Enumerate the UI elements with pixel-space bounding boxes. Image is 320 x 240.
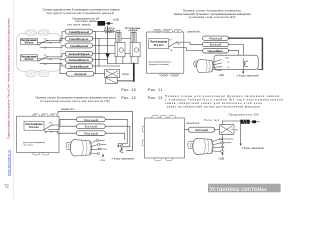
svg-text:с помощью Габаритного канала №: с помощью Габаритного канала №1 (при про… bbox=[165, 98, 283, 102]
fuse F1 (black block) bbox=[98, 21, 106, 26]
pill wire Зелёный (fig13) bbox=[189, 127, 215, 132]
pill wire Чёрный-2 (fig12) bbox=[76, 131, 105, 136]
svg-text:30-й конт: 30-й конт bbox=[154, 44, 165, 47]
svg-text:Подача команд и запуск устройс: Подача команд и запуск устройств · Рис-т… bbox=[6, 18, 10, 139]
pill wire Белый (fig12) bbox=[76, 124, 105, 129]
wire fuse to +12V plug bbox=[250, 121, 253, 123]
car wheels top-left bbox=[26, 30, 36, 35]
U3 side tabs bbox=[142, 126, 144, 132]
svg-text:Рис. 13: Рис. 13 bbox=[148, 96, 163, 100]
arrow to ignition block bbox=[242, 70, 244, 72]
svg-text:(для программирования: (для программирования bbox=[149, 61, 171, 63]
top loop wire bbox=[58, 112, 133, 151]
svg-text:Белый: Белый bbox=[210, 43, 221, 47]
svg-text:30: 30 bbox=[227, 67, 229, 69]
+12V terminal plug bbox=[252, 120, 256, 123]
feeder wire (thick) bbox=[133, 64, 135, 81]
wires K5 to pills bbox=[52, 119, 76, 125]
svg-text:Установка системы: Установка системы bbox=[210, 186, 267, 193]
ignition lock housing bbox=[200, 60, 213, 73]
svg-text:(на горле замка): (на горле замка) bbox=[68, 23, 91, 27]
wire bus to actuator M1 bbox=[96, 31, 116, 33]
wires from lock pins to harness bbox=[222, 138, 233, 140]
svg-text:+12В: +12В bbox=[112, 18, 119, 22]
U2 bottom connector tabs bbox=[33, 153, 40, 155]
svg-text:Рис. 11: Рис. 11 bbox=[148, 88, 163, 92]
relay K1 box (opening) bbox=[20, 38, 37, 44]
ignition pins fan bbox=[213, 60, 221, 63]
svg-text:+12В: +12В bbox=[100, 160, 106, 162]
svg-text:при двухступенчатом открывании: при двухступенчатом открывании дверей bbox=[47, 11, 114, 15]
relay K3 coil bbox=[106, 78, 118, 84]
svg-text:15: 15 bbox=[227, 62, 229, 64]
svg-text:Рис. 12: Рис. 12 bbox=[121, 96, 136, 100]
pill wire Зелёный bbox=[66, 71, 94, 76]
actuator M1 (driver door lock) bbox=[117, 30, 120, 32]
svg-text:30-й конт: 30-й конт bbox=[25, 42, 35, 45]
wire bus row 6 bbox=[99, 65, 120, 67]
svg-text:замка габаритный канал для вкл: замка габаритный канал для включения это… bbox=[165, 101, 262, 105]
alarm unit U1 box bbox=[146, 32, 183, 73]
svg-text:30: 30 bbox=[170, 50, 172, 52]
svg-text:Реле №4: Реле №4 bbox=[204, 119, 219, 122]
svg-text:системы): системы) bbox=[23, 145, 33, 147]
svg-text:+12В: +12В bbox=[218, 158, 224, 161]
svg-text:30-й конт: 30-й конт bbox=[29, 126, 40, 129]
svg-text:Синий/Красный: Синий/Красный bbox=[69, 30, 89, 34]
svg-text:87: 87 bbox=[44, 55, 46, 57]
svg-text:Зелёный/Белый: Зелёный/Белый bbox=[70, 64, 89, 68]
svg-text:двери: двери bbox=[105, 32, 115, 34]
svg-text:Зелёный: Зелёный bbox=[195, 128, 208, 132]
svg-text:+12В: +12В bbox=[218, 75, 224, 77]
car wheels bottom-right bbox=[39, 71, 49, 77]
pill wire Синий/Коричневый bbox=[65, 36, 93, 41]
actuator M1 wires bbox=[115, 57, 117, 64]
svg-text:Реле блокировки: Реле блокировки bbox=[150, 41, 168, 44]
wire pill2 down bbox=[229, 44, 244, 55]
arrow into ignition harness bbox=[102, 154, 104, 156]
alarm unit U3 box bbox=[145, 118, 185, 158]
pill wire Синий/Красный bbox=[65, 29, 93, 34]
car body (faint) bbox=[17, 34, 61, 72]
svg-text:на плюсе замка: на плюсе замка bbox=[76, 20, 97, 23]
actuator M2 wires bbox=[130, 57, 132, 64]
svg-text:Зелёный/Чёрный: Зелёный/Чёрный bbox=[69, 52, 90, 56]
relay K5 box bbox=[24, 121, 44, 130]
svg-text:30: 30 bbox=[44, 48, 46, 50]
wire green pill to relay K3 bbox=[96, 73, 105, 75]
svg-text:разъём №1: разъём №1 bbox=[61, 108, 75, 111]
wire pill1 to ignition bbox=[105, 119, 127, 143]
svg-text:30-й конт: 30-й конт bbox=[25, 58, 35, 61]
U1 bottom connector tabs bbox=[160, 73, 168, 76]
svg-text:Чёрный: Чёрный bbox=[209, 37, 222, 41]
relay K6 box with contacts bbox=[219, 124, 234, 134]
relay K2 box (closing) bbox=[20, 55, 37, 61]
svg-text:(переключательная часть как ко: (переключательная часть как контактов НР… bbox=[40, 99, 110, 103]
wire pill to relay bbox=[215, 129, 220, 131]
car wheels top-right bbox=[39, 30, 49, 35]
wire bus row 3 bbox=[96, 45, 124, 47]
svg-text:87: 87 bbox=[169, 40, 171, 42]
ignition contact hooks (fig12) bbox=[120, 145, 123, 147]
svg-text:заводская настройка): заводская настройка) bbox=[149, 63, 169, 66]
svg-text:30: 30 bbox=[45, 132, 47, 134]
car wheels bottom-left bbox=[26, 71, 36, 77]
svg-text:Синий/Коричн.: Синий/Коричн. bbox=[69, 37, 89, 41]
pill wire Чёрный (fig12) bbox=[76, 117, 105, 122]
svg-text:www.autoalarm.ru: www.autoalarm.ru bbox=[6, 150, 10, 176]
wire pill3 down bbox=[229, 51, 239, 56]
svg-text:30: 30 bbox=[44, 64, 46, 66]
svg-text:(для программируемой: (для программируемой bbox=[23, 141, 46, 144]
ignition contact hooks bbox=[244, 61, 247, 64]
ignition lock S3 (fig13) bbox=[188, 138, 213, 154]
wire down from fuse bbox=[107, 26, 109, 64]
svg-text:канал на габаритный сигнал для: канал на габаритный сигнал для выполнени… bbox=[167, 104, 260, 108]
svg-text:Чёрный/Бел.: Чёрный/Бел. bbox=[208, 49, 224, 53]
relay K4 box (blocking) bbox=[149, 39, 169, 49]
actuator M2 (other locks) bbox=[132, 30, 135, 32]
svg-text:к блоку зажигания: к блоку зажигания bbox=[242, 147, 265, 150]
ground-style arrow on wire bbox=[105, 53, 110, 58]
wire fuse to +12V bbox=[105, 22, 113, 24]
wire K4 to pill 2 bbox=[177, 42, 205, 44]
svg-text:разъём №1: разъём №1 bbox=[186, 122, 200, 125]
svg-text:Реле: Реле bbox=[123, 72, 130, 76]
ignition contact block bbox=[214, 55, 258, 69]
U2 top connector tabs bbox=[33, 114, 40, 117]
svg-text:Чёрный: Чёрный bbox=[84, 132, 98, 136]
svg-text:87: 87 bbox=[50, 132, 52, 134]
svg-text:к блоку зажигания: к блоку зажигания bbox=[237, 74, 260, 77]
svg-text:Белый: Белый bbox=[85, 125, 97, 129]
svg-text:к блоку зажигания: к блоку зажигания bbox=[112, 158, 135, 161]
svg-text:Зелёный/Коричн.: Зелёный/Коричн. bbox=[69, 58, 90, 62]
svg-text:Реле блокировки: Реле блокировки bbox=[26, 123, 44, 126]
wire pill2 to ignition bbox=[105, 126, 130, 147]
ignition lock S1 (fig11) bbox=[194, 60, 223, 73]
ignition pins fan (fig12) bbox=[91, 140, 97, 143]
banner bar bbox=[208, 184, 281, 193]
page edge shade bbox=[12, 0, 14, 200]
pill wire Чёрный/Белый (fig11) bbox=[203, 49, 229, 53]
wires relay K2 to harness bbox=[47, 54, 65, 57]
U3 top connector tabs bbox=[152, 116, 159, 119]
alarm unit U2 box bbox=[17, 116, 60, 152]
wire bus row 5 bbox=[96, 59, 108, 61]
svg-text:Синий/Белый: Синий/Белый bbox=[70, 44, 88, 48]
wire box to pill bbox=[185, 129, 189, 131]
pill wire Зелёный/Коричневый bbox=[65, 57, 93, 62]
wire relay to +12V node bbox=[222, 135, 224, 154]
svg-text:разъём №1: разъём №1 bbox=[188, 31, 202, 34]
plug blob bbox=[107, 22, 110, 24]
ignition housing (fig12) bbox=[75, 140, 92, 156]
collector wire bbox=[108, 63, 138, 65]
harness bus B bbox=[98, 39, 100, 66]
svg-text:установка типа контактов НЗ): установка типа контактов НЗ) bbox=[189, 15, 236, 19]
loop wire pill1 to ignition bbox=[229, 37, 263, 39]
svg-text:Предохранитель 30А: Предохранитель 30А bbox=[229, 114, 259, 117]
svg-text:Пример схемы для реализации фу: Пример схемы для реализации функции запи… bbox=[165, 94, 280, 98]
wires relay K1 to harness bbox=[47, 32, 65, 41]
pill wire Синий/Белый bbox=[65, 43, 93, 48]
fuse F2 (black block) bbox=[240, 120, 249, 124]
pill wire Белый (fig11) bbox=[203, 42, 229, 46]
ignition pins fan (fig13) bbox=[213, 139, 220, 142]
pill output stubs bbox=[93, 31, 96, 33]
wire relay to fuse bbox=[222, 121, 240, 124]
wire pill3 bbox=[105, 133, 124, 139]
pill wire Зелёный/Белый bbox=[65, 64, 93, 69]
ignition lock S2 (fig12) bbox=[66, 140, 91, 156]
wire down to ignition block bbox=[240, 124, 242, 144]
wires from lock pins bbox=[99, 139, 105, 141]
svg-text:72: 72 bbox=[4, 184, 9, 189]
pill wire Зелёный/Чёрный bbox=[65, 51, 93, 56]
svg-text:Чёрный: Чёрный bbox=[84, 118, 98, 122]
wire to green pill bbox=[60, 63, 66, 74]
harness bus A bbox=[95, 32, 97, 74]
wire K4 to pill 3 bbox=[174, 48, 205, 51]
pill wire Чёрный (fig11) bbox=[203, 36, 229, 40]
ignition housing (fig13) bbox=[197, 138, 213, 154]
svg-text:87а: 87а bbox=[235, 130, 238, 132]
U3 bottom connector tabs bbox=[155, 158, 162, 160]
wire bus to actuator M2 bbox=[99, 38, 130, 40]
relay K3 box with contacts bbox=[105, 70, 120, 78]
link underline bbox=[10, 150, 12, 176]
svg-text:30/1: 30/1 bbox=[225, 58, 229, 60]
svg-text:87: 87 bbox=[44, 39, 46, 41]
wire bus row 4 bbox=[99, 53, 138, 55]
svg-text:Рис. 10: Рис. 10 bbox=[121, 88, 136, 92]
svg-text:Зелёный: Зелёный bbox=[74, 72, 86, 76]
U1 top connector tabs bbox=[154, 30, 161, 33]
